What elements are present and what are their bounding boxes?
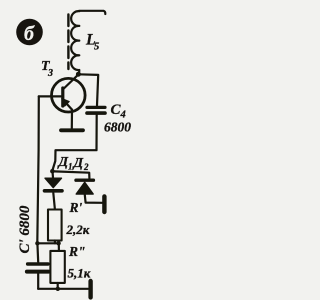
wire: base lead <box>39 95 62 97</box>
svg-text:С' 6800: С' 6800 <box>17 205 33 253</box>
capacitor C' plate 2 <box>27 270 49 274</box>
figure part marker б (filled disc) <box>16 19 43 46</box>
wire: collector lead from node to transistor base bar <box>63 75 78 89</box>
wire: D2 anode to ground <box>85 194 103 203</box>
svg-text:5,1к: 5,1к <box>68 266 91 281</box>
node dot (right rail) <box>56 241 60 245</box>
svg-text:2,2к: 2,2к <box>66 222 90 237</box>
ground bar (emitter) <box>61 128 83 132</box>
wire: junction rail above R'' <box>37 242 59 244</box>
resistor R' body <box>48 210 62 241</box>
wire: junction dot to D2 <box>55 171 90 178</box>
wire: node to C4 (right, then down) <box>79 74 99 105</box>
diode D2 triangle <box>76 182 93 194</box>
dashed core/coupling line <box>67 15 69 70</box>
inductor L5 <box>71 11 79 73</box>
svg-text:5: 5 <box>94 42 99 53</box>
ground bar (bottom right) <box>88 281 92 297</box>
diode D1 triangle <box>45 178 62 187</box>
svg-text:Д: Д <box>57 155 69 170</box>
wire: R'' top lead <box>58 243 60 251</box>
wire: R'' bottom lead <box>57 283 59 289</box>
ground bar (D2) <box>102 196 106 212</box>
diode D2 cathode bar <box>76 178 93 181</box>
svg-text:Д: Д <box>72 156 84 171</box>
wire: R' bottom lead <box>54 241 56 244</box>
transistor T3 emitter diagonal <box>63 100 72 110</box>
diode D1 cathode bar <box>45 189 63 193</box>
node dot (L5 / C4 / collector) <box>76 72 81 77</box>
svg-text:R": R" <box>68 244 86 259</box>
wire: bottom rail <box>38 288 88 290</box>
svg-text:1: 1 <box>68 162 73 172</box>
wire: D1 to R' <box>53 193 55 210</box>
node dot (bottom rail) <box>56 287 60 291</box>
wire: C4 down to junction, left, down to node <box>52 115 96 171</box>
capacitor C4 plate 1 <box>87 106 105 109</box>
svg-text:б: б <box>24 23 35 45</box>
svg-text:3: 3 <box>47 68 53 79</box>
svg-text:6800: 6800 <box>104 120 131 135</box>
svg-text:2: 2 <box>83 162 89 172</box>
diode D1 anode lead <box>51 173 54 178</box>
node dot (left rail) <box>35 241 39 245</box>
transistor T3 circle <box>52 78 86 112</box>
svg-text:R': R' <box>69 200 83 215</box>
capacitor C' plate 1 <box>28 262 48 265</box>
transistor T3 base bar <box>61 88 64 106</box>
wire: base vertical down left side <box>37 96 39 242</box>
wire: C' top lead <box>36 243 39 262</box>
wire: C' bottom lead <box>37 274 39 289</box>
transistor T3 emitter arrowhead <box>62 99 69 106</box>
resistor R'' body <box>50 251 64 283</box>
wire: emitter down lead <box>71 110 73 129</box>
node dot (D1/D2 junction) <box>50 169 55 174</box>
wire: top lead from L5 to right edge of fragment <box>79 11 105 14</box>
capacitor C4 plate 2 <box>87 111 105 115</box>
